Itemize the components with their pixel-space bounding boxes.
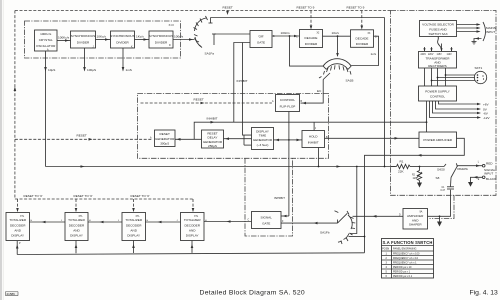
reset drop to totalizer 3 <box>133 199 135 212</box>
wire junction down to SA1Fb contact <box>351 167 357 234</box>
svg-text:DISPLAY: DISPLAY <box>127 234 140 238</box>
reset delay generator block <box>202 130 224 148</box>
svg-text:GENERATOR: GENERATOR <box>253 138 273 142</box>
divider1 output down wire 100us <box>84 48 86 71</box>
node amp input ground junction <box>439 215 441 217</box>
svg-text:EC: EC <box>317 89 322 93</box>
svg-text:1mS: 1mS <box>126 68 132 72</box>
svg-text:SA1Fb: SA1Fb <box>320 231 330 235</box>
display gen second left stub <box>244 144 252 146</box>
svg-text:RESET: RESET <box>77 134 87 138</box>
transformer input tap arrows <box>423 44 452 52</box>
wire S8 common to red terminal <box>458 165 483 167</box>
wire 10c/s down to SA1B top <box>337 36 339 56</box>
rotary switch SA1Fb <box>335 211 356 244</box>
amplifier unit dashed boundary <box>430 195 455 218</box>
svg-text:CONTROL: CONTROL <box>280 98 295 102</box>
svg-text:OPERATE: OPERATE <box>457 168 468 171</box>
svg-text:250µS: 250µS <box>208 144 217 148</box>
node 10c/s junction <box>337 35 339 37</box>
svg-text:RESET: RESET <box>160 132 170 136</box>
wire signal gate to totalizer 4 <box>204 221 252 223</box>
svg-text:POSN: POSN <box>382 248 389 251</box>
svg-text:FREQUENCY c/s x 100: FREQUENCY c/s x 100 <box>393 253 420 256</box>
svg-text:DECADE: DECADE <box>305 36 318 40</box>
wire hold inhibit to power amplifier <box>325 137 420 139</box>
svg-text:TOTALIZER: TOTALIZER <box>9 218 26 222</box>
reset bus up arrow <box>14 87 17 92</box>
inhibit branch down to display gen <box>243 43 252 136</box>
svg-text:SYNCHRONOUS: SYNCHRONOUS <box>149 34 173 38</box>
svg-text:100c/s: 100c/s <box>174 35 184 39</box>
svg-text:TOTALIZER: TOTALIZER <box>68 218 85 222</box>
svg-text:J: J <box>315 128 316 130</box>
mains input bracket <box>483 22 486 41</box>
svg-text:GENERATOR: GENERATOR <box>155 137 175 141</box>
resistor R1 <box>391 160 420 174</box>
svg-text:TOTALIZER: TOTALIZER <box>184 218 201 222</box>
svg-text:DECODER: DECODER <box>69 224 85 228</box>
svg-text:RESET: RESET <box>223 6 233 10</box>
power supply control block <box>419 86 457 101</box>
reset bus top horizontal <box>15 10 391 12</box>
svg-text:PERIOD µs x 1: PERIOD µs x 1 <box>393 271 411 274</box>
svg-text:DIVIDER: DIVIDER <box>305 42 318 46</box>
wire to check contact <box>420 166 445 168</box>
signal gate block <box>248 212 285 229</box>
wire divider1 to divider2 <box>96 39 111 41</box>
svg-text:INHIBIT: INHIBIT <box>274 196 285 200</box>
totalizer 2 block <box>65 213 88 241</box>
print code box <box>6 292 19 296</box>
amplifier and shaper block <box>399 209 428 230</box>
wire amplifier input from C1 <box>428 190 451 217</box>
svg-text:INPUT: INPUT <box>484 172 493 176</box>
svg-text:DECODER: DECODER <box>10 224 26 228</box>
svg-text:OSCILLATOR: OSCILLATOR <box>36 44 56 48</box>
node 100c/s junction <box>289 35 291 37</box>
svg-text:AMPLIFIER: AMPLIFIER <box>407 214 424 218</box>
svg-text:FLIP-FLOP: FLIP-FLOP <box>280 105 296 109</box>
psu feed to power amplifier <box>426 101 428 132</box>
ground below R2 <box>417 183 422 188</box>
svg-text:DIVIDER: DIVIDER <box>356 42 369 46</box>
svg-text:SYNCHRONOUS: SYNCHRONOUS <box>71 34 95 38</box>
reset to 9 drop 1 <box>310 11 312 29</box>
wire 100c/s down to SA1B left contact <box>290 36 324 66</box>
svg-text:INHIBIT: INHIBIT <box>237 79 248 83</box>
svg-text:RESET: RESET <box>194 98 204 102</box>
power unit dashed box <box>391 11 497 196</box>
EC unit dashed box <box>138 94 329 159</box>
wire SA1Fa contact to OR gate <box>214 33 250 35</box>
wire black terminal to ground <box>471 177 483 182</box>
reset drop arrow at OR gate column <box>226 11 229 15</box>
reset drop to totalizer 1 <box>17 199 19 212</box>
crystal oscillator block <box>35 30 58 52</box>
wire amplifier output to SA1Fb contact <box>353 215 404 217</box>
svg-text:100Kc/s: 100Kc/s <box>40 32 52 36</box>
decade divider 2 <box>351 30 378 48</box>
pin letters totalizer wires <box>31 220 208 222</box>
synchronous divider 2 <box>110 31 134 48</box>
totalizer display bus <box>16 241 18 255</box>
svg-text:INHIBIT: INHIBIT <box>308 141 319 145</box>
svg-text:Detailed Block Diagram SA.: Detailed Block Diagram SA. 520 <box>200 290 306 297</box>
svg-text:SA1B: SA1B <box>346 79 354 83</box>
wire reset delay gen to reset gen <box>175 138 202 140</box>
wire SA1Fa down right side to check bus <box>384 18 386 167</box>
SA1B wiper arm <box>323 73 330 80</box>
svg-text:DISPLAY: DISPLAY <box>70 234 83 238</box>
transformer and rectifiers block <box>419 52 457 69</box>
svg-text:10µS: 10µS <box>48 68 55 72</box>
svg-text:(~3 Sec): (~3 Sec) <box>257 143 269 147</box>
reset line from reset generator <box>15 138 152 140</box>
switch S8 <box>436 163 469 180</box>
svg-text:SIGNAL: SIGNAL <box>261 216 273 220</box>
wire decade2 output 1c/s to SA1B right contact <box>351 36 378 65</box>
hold inhibit block <box>302 128 328 147</box>
wire totalizer2 to totalizer1 <box>30 221 66 223</box>
check bus 10us line <box>46 166 396 168</box>
svg-text:DIVIDER: DIVIDER <box>116 41 129 45</box>
svg-text:100c/s: 100c/s <box>281 31 291 35</box>
svg-text:Fig. 4. 13: Fig. 4. 13 <box>470 290 499 297</box>
svg-text:SA1Fa: SA1Fa <box>205 52 215 56</box>
svg-text:FREQUENCY c/s x 10: FREQUENCY c/s x 10 <box>393 257 419 260</box>
wire divider3 to SA1Fa <box>173 39 195 41</box>
decade divider 1 <box>296 30 323 48</box>
inhibit line from reset delay junction <box>194 122 426 139</box>
node inhibit to OR gate riser <box>234 43 250 123</box>
display time generator block <box>252 128 274 150</box>
OR gate block <box>250 31 275 48</box>
svg-text:SHAPER: SHAPER <box>409 223 422 227</box>
wire divider2 to divider3 <box>135 39 150 41</box>
svg-text:1Kc/s: 1Kc/s <box>136 35 144 39</box>
SA function switch table <box>382 239 434 279</box>
reset line to control flip-flop <box>141 102 272 104</box>
svg-text:VOLTAGE SELECTOR: VOLTAGE SELECTOR <box>422 23 454 27</box>
oscillator output down wire 10us <box>45 51 47 167</box>
wire decade1 to decade2 10c/s <box>323 35 351 37</box>
svg-text:PANEL ENGRAVING: PANEL ENGRAVING <box>393 248 416 251</box>
svg-text:DIVIDER: DIVIDER <box>77 41 90 45</box>
capacitor C1 <box>441 178 455 193</box>
rotary switch SA1Fa <box>194 16 217 48</box>
svg-text:J: J <box>93 46 94 48</box>
svg-text:CHECK: CHECK <box>437 169 446 171</box>
svg-text:100Kc/s: 100Kc/s <box>58 36 70 40</box>
potentiometer R2 <box>412 167 422 183</box>
synchronous divider 1 <box>71 31 96 48</box>
wire totalizer4 to totalizer3 <box>146 221 181 223</box>
ground black terminal <box>468 182 473 187</box>
reset drop to totalizer 4 <box>192 199 194 212</box>
svg-text:DECODER: DECODER <box>184 224 200 228</box>
ground mains earth <box>472 42 477 45</box>
reset drop to totalizer 2 <box>75 199 77 212</box>
svg-text:+6V: +6V <box>483 103 490 107</box>
node inhibit to power amp junction <box>426 121 428 123</box>
wire SA1B wiper to control flip-flop <box>301 80 324 104</box>
svg-text:'OR': 'OR' <box>258 34 264 38</box>
socket SKT1 <box>474 71 486 83</box>
terminal black <box>482 176 485 179</box>
svg-text:AND: AND <box>14 229 21 233</box>
svg-text:TOTALIZER: TOTALIZER <box>125 218 142 222</box>
svg-text:PERIOD µs x 10: PERIOD µs x 10 <box>393 266 412 269</box>
svg-text:CONTROL: CONTROL <box>430 95 445 99</box>
svg-text:SYNCHRONOUS: SYNCHRONOUS <box>110 34 134 38</box>
svg-text:21586: 21586 <box>7 292 16 296</box>
terminal red <box>482 164 485 167</box>
svg-text:300µS: 300µS <box>160 142 169 146</box>
transformer output drops <box>424 68 426 86</box>
synchronous divider 3 <box>149 31 173 48</box>
svg-text:10c/s: 10c/s <box>332 31 340 35</box>
reset to 9 drop 2 <box>361 11 363 29</box>
svg-text:AND: AND <box>412 218 419 222</box>
svg-text:PERIOD µs x 0.1: PERIOD µs x 0.1 <box>393 275 413 278</box>
totalizer 1 block <box>6 213 30 246</box>
svg-text:DISPLAY: DISPLAY <box>11 234 24 238</box>
SA1Fb wiper arm <box>338 213 348 223</box>
XO unit dashed box <box>25 21 181 58</box>
svg-text:1c/s: 1c/s <box>371 52 377 56</box>
svg-text:AND: AND <box>73 229 80 233</box>
svg-text:AND: AND <box>189 229 196 233</box>
wire SA1Fa wiper to top line <box>211 17 385 19</box>
flex lead to transformer <box>438 37 442 50</box>
svg-text:DIVIDER: DIVIDER <box>155 41 168 45</box>
svg-text:S8: S8 <box>436 176 440 180</box>
power amplifier block <box>419 132 457 148</box>
OR gate output wire 100c/s <box>272 35 300 37</box>
svg-text:RECTIFIERS: RECTIFIERS <box>428 64 446 68</box>
svg-text:-12V: -12V <box>483 116 490 120</box>
node inhibit to hold inhibit drop <box>313 122 315 130</box>
node display drive junction <box>288 139 290 141</box>
wires to SKT1 <box>446 74 476 76</box>
svg-text:0.47: 0.47 <box>441 190 446 192</box>
svg-text:X.O: X.O <box>169 23 175 27</box>
svg-text:S.A FUNCTION SWITCH: S.A FUNCTION SWITCH <box>382 240 432 245</box>
wire flip-flop down to gating node <box>288 112 290 217</box>
psu output -12V <box>430 101 480 118</box>
signal gate unit dashed box <box>245 158 293 236</box>
wire totalizer3 to totalizer2 <box>88 221 122 223</box>
divider2 output down wire 1ms <box>122 48 124 71</box>
svg-text:RESET TO '0': RESET TO '0' <box>131 194 150 198</box>
rotary switch SA1B fan <box>323 59 351 75</box>
svg-text:AND: AND <box>130 229 137 233</box>
reset to 0 bottom dashed line <box>15 198 193 200</box>
svg-text:BLACK: BLACK <box>486 177 497 181</box>
totalizer 4 block <box>181 213 205 241</box>
power amplifier output loop <box>365 138 465 253</box>
wire display gen to reset delay gen <box>224 138 252 140</box>
wire SA1Fb wiper to signal gate <box>281 222 338 224</box>
psu output -6V <box>433 101 480 113</box>
totalizer top pin letters <box>19 215 197 217</box>
svg-text:FUSES AND: FUSES AND <box>429 27 447 31</box>
mains input lines <box>457 24 480 26</box>
wire hold inhibit down to check bus <box>318 148 320 167</box>
svg-text:DECADE: DECADE <box>356 36 369 40</box>
svg-text:DECODER: DECODER <box>126 224 142 228</box>
scan gutter edge <box>0 0 2 300</box>
svg-text:INHIBIT: INHIBIT <box>207 117 218 121</box>
svg-text:22K: 22K <box>398 169 404 173</box>
svg-text:GATE: GATE <box>257 41 265 45</box>
svg-text:POWER SUPPLY: POWER SUPPLY <box>425 90 450 94</box>
svg-text:SKT1: SKT1 <box>475 66 483 70</box>
mains earth line <box>474 39 482 42</box>
wire oscillator to divider 1 <box>57 40 71 42</box>
svg-text:SWITCH SA3: SWITCH SA3 <box>429 32 448 36</box>
reset bus left vertical <box>14 11 16 200</box>
svg-text:INPUT: INPUT <box>486 30 495 34</box>
psu output 0V <box>436 101 480 109</box>
inhibit wire into signal gate <box>281 215 289 217</box>
bus riser arrows <box>16 245 19 249</box>
svg-text:GATE: GATE <box>262 222 270 226</box>
reset generator block <box>150 130 175 147</box>
svg-text:R1: R1 <box>400 160 404 164</box>
svg-text:RESET TO 9: RESET TO 9 <box>297 6 315 10</box>
svg-text:1M: 1M <box>413 178 416 180</box>
psu output 6V <box>439 101 480 104</box>
svg-text:TIME: TIME <box>259 134 266 138</box>
svg-text:RESET TO '0': RESET TO '0' <box>24 194 43 198</box>
ground at amplifier input <box>437 216 442 226</box>
svg-text:10Kc/s: 10Kc/s <box>97 35 107 39</box>
svg-text:100µS: 100µS <box>87 68 96 72</box>
svg-text:RESET TO '0': RESET TO '0' <box>74 194 93 198</box>
svg-text:HOLD: HOLD <box>309 135 318 139</box>
node check bus junction <box>356 166 358 168</box>
svg-text:POWER AMPLIFIER: POWER AMPLIFIER <box>423 138 452 142</box>
SA1Fb tap stub <box>349 236 365 238</box>
voltage selector block <box>420 21 457 37</box>
totalizer 3 block <box>122 213 146 241</box>
control flip-flop block <box>272 95 303 112</box>
wire to display time generator <box>274 139 289 141</box>
svg-text:RESET TO 9: RESET TO 9 <box>347 6 365 10</box>
svg-text:DISPLAY: DISPLAY <box>256 129 269 133</box>
wire to hold inhibit <box>289 139 302 141</box>
svg-text:FREQUENCY c/s x 1: FREQUENCY c/s x 1 <box>393 262 417 265</box>
node R1 R2 junction <box>419 166 421 168</box>
svg-text:DISPLAY: DISPLAY <box>186 234 199 238</box>
svg-text:RED: RED <box>486 162 493 166</box>
svg-text:CRYSTAL: CRYSTAL <box>39 38 53 42</box>
